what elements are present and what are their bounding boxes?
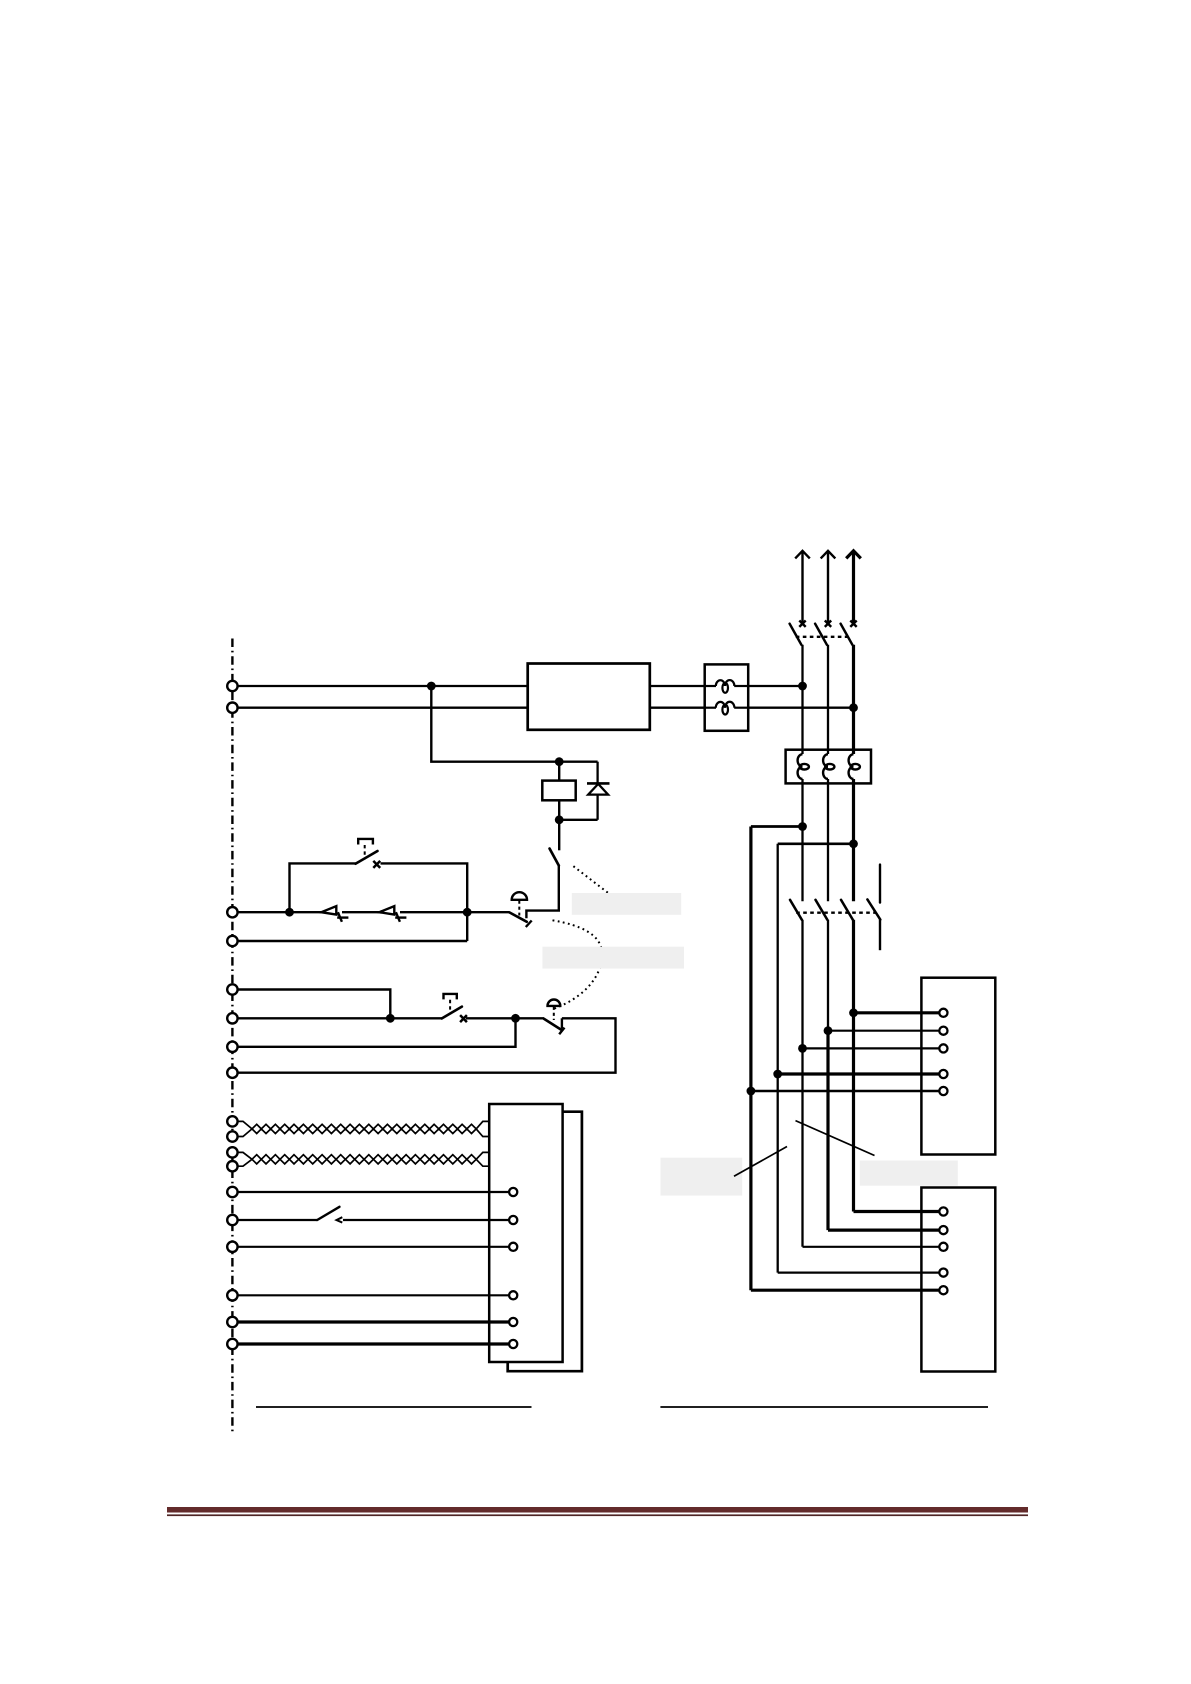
U1 terminal 4 [939,1070,947,1078]
breaker Q1 linkage dashed [796,636,848,638]
wire relay to contact K1.1 [558,820,560,851]
wire row3 to U1 [803,1047,940,1049]
terminal X1:2 [227,703,237,713]
node control tap A [798,822,807,831]
terminal X1:14 [227,1215,237,1225]
contactor K1 aux blade [867,899,880,919]
pressure switch B1 dome [512,892,527,900]
phase L2 conductor mid [827,779,829,901]
U1 terminal 3 [939,1044,947,1052]
pushbutton S1 blade [356,851,378,864]
label pointer line G3 [734,1147,787,1177]
U2 terminal 1 [939,1207,947,1215]
device U1 box [921,978,995,1155]
fuse F2a element [798,754,809,779]
wire tap down to relay branch [431,686,597,762]
fuse F2c element [849,754,860,779]
phase L3 conductor lower [852,920,855,1212]
wire L3 to U2 t1 [854,1210,940,1213]
node mid circuit2 [511,1014,520,1023]
pin circle 15 [509,1243,517,1251]
door switch seat arrow [337,1217,343,1222]
wire X1:16 to pin [238,1294,509,1296]
wire coil bottom stub [558,800,560,820]
terminal X1:1 [227,681,237,691]
node tap on L1 [427,682,436,691]
node phase C feed [849,703,858,712]
wire L1 to U2 t3 [803,1246,940,1248]
terminal X1:17 [227,1317,237,1327]
terminal X1:3 [227,907,237,917]
pressure switch B2 link [553,1007,555,1020]
wire N to transformer [238,707,528,709]
wire between contacts [342,911,380,913]
wire coil top stub [558,762,560,781]
connector XS1 back shell [508,1112,582,1372]
door switch blade [317,1207,339,1220]
terminal X1:7 [227,1042,237,1052]
terminal X1:18 [227,1339,237,1349]
U1 terminal 1 [939,1009,947,1017]
wire X1:15 to pin [238,1246,509,1248]
wire control B corner [778,842,854,845]
fuse block F1 box [705,664,749,730]
fuse F1a element [706,680,748,693]
pin circle 18 [509,1340,517,1348]
node motor row3 [798,1044,807,1053]
phase L1 conductor lower [801,920,803,1247]
pushbutton S1 actuator [358,839,373,845]
phase L2 conductor lower bold [826,1031,829,1230]
wire X1:4 return rail [238,940,467,942]
wire X1:18 to pin [238,1342,509,1345]
wire contact to pressure switch [526,866,558,919]
label box G2 [542,947,684,969]
pressure switch B2 seat tick [559,1028,564,1035]
U2 terminal 5 [939,1286,947,1294]
contactor K1 pole1 blade [790,900,802,920]
twisted pair 1 lead-in [238,1121,252,1136]
pushbutton S3 plunger link [449,1000,451,1015]
pressure switch B2 dome [548,1000,561,1006]
wire X1:8 return [238,1018,616,1072]
pressure switch B1 blade [509,912,526,921]
terminal X1:10 [227,1131,237,1141]
terminal X1:11 [227,1147,237,1157]
wire X1:14 with door switch [238,1219,317,1221]
wire control A corner [751,825,803,828]
contactor K1 pole2 blade [816,900,828,920]
node start circuit2 [386,1014,395,1023]
wire door switch to pin [343,1219,509,1221]
label pointer line G4 [796,1121,875,1156]
U1 terminal 2 [939,1027,947,1035]
wire to node right [400,911,509,913]
twisted pair 2 lead-out [476,1152,489,1166]
fuse strip F2 box [786,750,871,784]
node motor row5 [747,1087,756,1096]
node relay bottom [555,815,564,824]
bypass branch rail [290,863,356,912]
contactor K1 aux stub lower [879,920,881,951]
terminal X1:6 [227,1013,237,1023]
pushbutton S3 make mark [460,1015,467,1022]
label box G3 [661,1158,743,1196]
twisted pair 2 strand B [252,1159,476,1164]
terminal X1:4 [227,936,237,946]
breaker Q1 pole3 blade [841,624,853,645]
label pointer dotted 1 [573,866,608,893]
breaker Q1 pole2 blade [815,624,827,645]
terminal X1:15 [227,1242,237,1252]
pin circle 14 [509,1216,517,1224]
phase L2 conductor lower [827,920,829,1031]
pressure switch B1 link [518,901,520,916]
wire T1 to fuse block L [650,685,705,687]
caption underline right [660,1406,988,1408]
pressure switch B2 stub [561,1018,563,1028]
pushbutton S1 make mark [373,861,380,868]
U1 terminal 5 [939,1087,947,1095]
caption underline left [256,1406,532,1408]
wire row4 to U1 [778,1072,940,1075]
wire fuse to phase A [748,685,802,687]
node relay top [555,757,564,766]
twisted pair 2 strand A [252,1155,476,1160]
node phase A feed [798,682,807,691]
mounting-rail axis (dash-dot) [231,639,233,1435]
pushbutton S3 actuator [444,994,457,1000]
node control tap B [849,839,858,848]
fuse F1b element [706,702,748,715]
U2 terminal 3 [939,1243,947,1251]
wire L2 to U2 t2 [828,1228,940,1231]
terminal X1:9 [227,1116,237,1126]
phase L2 conductor upper [827,645,829,754]
relay coil K1 [542,781,575,801]
supply arrow L3 [846,551,861,624]
supply arrow L1 [795,551,810,624]
wire control A to U2 t5 [751,1289,940,1292]
label box G4 [860,1161,958,1186]
check contact S2b [379,906,406,922]
pin circle 16 [509,1291,517,1299]
control B vertical [777,844,779,1273]
twisted pair 1 lead-out [476,1121,489,1136]
wire X1:13 to pin [238,1191,509,1193]
connector XS1 front box [489,1104,562,1362]
check contact S2a [321,906,348,922]
terminal X1:12 [227,1161,237,1171]
breaker Q1 pole1 blade [790,624,802,645]
label box G1 [572,893,681,915]
twisted pair 2 lead-in [238,1152,252,1166]
node bypass right [463,908,472,917]
terminal X1:5 [227,984,237,994]
transformer T1 box [528,664,650,730]
wire X1:6 [238,1017,442,1019]
terminal X1:8 [227,1068,237,1078]
node motor row4 [773,1070,782,1079]
wire X1:5 [238,990,390,1019]
twisted pair 1 strand B [252,1129,476,1134]
wire T1 to fuse block N [650,707,705,709]
phase L3 conductor upper [852,645,855,754]
wire row2 to U1 [828,1030,940,1032]
footer rule thin [167,1514,1028,1516]
wire to node mid circuit2 [466,1017,544,1019]
node motor row1 [849,1008,858,1017]
wire X1:17 to pin [238,1320,509,1323]
twisted pair 1 strand A [252,1124,476,1129]
pushbutton S1 plunger link [364,845,366,860]
fuse F2b element [823,754,834,779]
U2 terminal 4 [939,1269,947,1277]
pin circle 17 [509,1318,517,1326]
pressure switch B2 blade [544,1019,562,1030]
bypass branch rail right [381,863,468,941]
breaker Q1 pole2 x-mark [825,621,831,627]
contact K1.1 blade [550,849,559,866]
footer rule thick [167,1507,1028,1513]
breaker Q1 pole1 x-mark [799,621,805,627]
wire X1:3 rail [238,911,322,913]
flyback diode V1 [559,762,609,820]
phase L1 conductor upper [801,645,803,754]
phase L3 conductor mid [852,779,855,901]
contactor K1 aux stub upper [879,865,881,903]
pin circle 13 [509,1188,517,1196]
pushbutton S3 blade [442,1007,462,1019]
phase L1 conductor mid [801,779,803,901]
terminal X1:16 [227,1290,237,1300]
node bypass left [285,908,294,917]
label pointer arc dotted 2 [553,920,603,1008]
wire fuse to phase C [748,707,853,709]
wire control B to U2 t4 [778,1271,940,1273]
device U2 box [921,1188,995,1372]
wire L1 to transformer [238,685,528,687]
wire X1:7 branch [238,1018,516,1047]
wire row1 to U1 [854,1011,940,1014]
terminal X1:13 [227,1187,237,1197]
control A vertical [749,827,752,1291]
U2 terminal 2 [939,1226,947,1234]
supply arrow L2 [821,551,836,624]
wire row5 to U1 [751,1090,940,1092]
pressure switch B1 seat tick [526,921,532,928]
contactor K1 pole3 blade [841,900,853,920]
node motor row2 [824,1026,833,1035]
contactor K1 linkage dashed [796,912,875,914]
breaker Q1 pole3 x-mark [850,621,856,627]
